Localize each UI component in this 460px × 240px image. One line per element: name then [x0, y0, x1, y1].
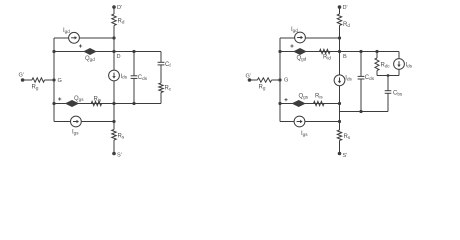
svg-text:Rdc: Rdc	[381, 63, 391, 69]
svg-text:Qgd: Qgd	[297, 56, 307, 62]
junction top wire / drain line (right)	[338, 36, 341, 39]
junction rail / Qgd wire (right)	[278, 50, 281, 53]
wire Qgd branch (right)	[280, 51, 340, 53]
node G' terminal (right circuit)	[246, 74, 252, 82]
wire bottom rail	[54, 103, 161, 105]
capacitor Cds (left circuit)	[131, 75, 148, 81]
svg-text:Ris: Ris	[94, 97, 102, 103]
svg-text:S': S'	[117, 153, 122, 159]
wire Cds top	[133, 52, 135, 76]
svg-text:Rc: Rc	[165, 86, 172, 92]
resistor Rdc (right circuit)	[375, 58, 390, 71]
noise source Qgs (right circuit)	[293, 94, 309, 107]
junction Cds bottom	[132, 102, 135, 105]
current source Ids (right circuit, main line)	[334, 75, 352, 86]
svg-text:Igd: Igd	[291, 27, 298, 33]
wire Rs to S'	[113, 140, 115, 154]
svg-text:Igs: Igs	[72, 130, 79, 136]
wire Cbs to return wire	[387, 93, 389, 111]
wire Rc to bottom rail	[160, 93, 162, 104]
wire stem to Cbs	[387, 76, 389, 91]
svg-text:D: D	[117, 54, 121, 60]
svg-text:Rg: Rg	[259, 85, 266, 91]
wire drain line top-node to node D	[113, 38, 115, 52]
wire Rdc to box bottom	[376, 71, 378, 76]
junction box bottom / stem	[387, 74, 390, 77]
current source Ids (left circuit)	[109, 70, 128, 81]
polarity mark + (Qgd right)	[290, 44, 293, 47]
svg-text:Rd: Rd	[118, 19, 125, 25]
node G (right circuit)	[278, 78, 288, 84]
resistor Rs (right circuit)	[337, 130, 351, 141]
wire output return	[340, 111, 389, 113]
svg-text:Igd: Igd	[63, 28, 70, 34]
node D' terminal (right circuit)	[338, 5, 348, 11]
node D' terminal (left circuit)	[112, 5, 122, 11]
wire Qgd branch	[54, 51, 114, 53]
wire Rs to S' (right)	[339, 141, 341, 154]
svg-text:Cds: Cds	[138, 75, 148, 81]
svg-text:G': G'	[19, 73, 24, 79]
wire bottom rail to Igs wire	[113, 104, 115, 122]
svg-text:Qgs: Qgs	[74, 96, 84, 102]
svg-text:G': G'	[246, 74, 251, 80]
junction Igs wire / main line	[112, 120, 115, 123]
resistor Ris (left circuit)	[91, 97, 102, 106]
resistor Rc (left circuit)	[159, 83, 172, 93]
junction Cds top	[132, 50, 135, 53]
wire Cds bottom (right)	[360, 79, 362, 112]
wire Cds top (right)	[360, 52, 362, 77]
capacitor Cf (left circuit)	[158, 62, 172, 68]
svg-text:B: B	[343, 54, 347, 60]
svg-text:Qgs: Qgs	[299, 94, 309, 100]
junction Igs wire / main line (right)	[338, 120, 341, 123]
svg-text:Igs: Igs	[301, 131, 308, 137]
wire Ids to box bottom	[398, 69, 400, 75]
wire node D to Ids	[113, 52, 115, 71]
svg-text:Cbs: Cbs	[393, 91, 403, 97]
junction left rail / Qgd wire	[52, 50, 55, 53]
svg-text:D': D'	[343, 5, 348, 11]
polarity mark + (Qgd left)	[79, 44, 82, 47]
node D (left circuit)	[112, 50, 120, 60]
resistor Rd (right circuit)	[337, 14, 350, 28]
svg-text:Ids: Ids	[406, 63, 413, 69]
svg-text:Rid: Rid	[323, 55, 331, 61]
wire Rd to top node	[113, 26, 115, 39]
wire bottom rail (right)	[280, 103, 340, 105]
wire to Rs (right)	[339, 122, 341, 131]
noise source Qgs (left circuit)	[66, 96, 84, 106]
svg-text:Rg: Rg	[32, 85, 39, 91]
wire top rail (right)	[280, 37, 340, 39]
resistor Rs (left circuit)	[112, 130, 125, 141]
current source Igs (left circuit)	[71, 116, 82, 135]
node G' terminal (left circuit)	[19, 73, 25, 82]
wire main line through lower junction	[339, 104, 341, 122]
wire node B to Ids (right)	[339, 52, 341, 76]
wire D' to Rd	[113, 7, 115, 14]
capacitor Cbs (right circuit)	[385, 91, 403, 97]
noise source Qgd (right circuit)	[294, 49, 306, 62]
resistor Ris (right circuit)	[314, 94, 325, 106]
wire box bottom	[377, 75, 399, 77]
svg-text:Rs: Rs	[118, 134, 125, 140]
wire top rail	[54, 37, 114, 39]
wire Rg to node G (right)	[272, 79, 280, 81]
node S' terminal (right circuit)	[338, 152, 348, 159]
wire Cds bottom	[133, 78, 135, 103]
svg-text:Ris: Ris	[315, 94, 323, 100]
svg-text:Rs: Rs	[344, 134, 351, 140]
wire node D to output branch	[114, 51, 161, 53]
polarity mark + (Qgs right)	[284, 98, 287, 101]
svg-text:S': S'	[343, 153, 348, 158]
wire to Rs	[113, 122, 115, 130]
svg-text:Cds: Cds	[365, 75, 375, 81]
svg-text:Cf: Cf	[165, 62, 171, 68]
current source Igs (right circuit)	[294, 116, 308, 137]
wire Rd to top node (right)	[339, 26, 341, 39]
wire Ids to bottom rail (right)	[339, 85, 341, 103]
left rail wire (right circuit)	[279, 38, 281, 122]
svg-text:Rd: Rd	[343, 22, 350, 28]
resistor Rd (left circuit)	[112, 14, 125, 26]
wire G' to Rg (right)	[250, 79, 258, 81]
wire Igs loop (right)	[280, 121, 340, 123]
wire D' to Rd (right)	[339, 7, 341, 14]
node B (right circuit)	[338, 50, 347, 60]
wire Cf to Rc	[160, 65, 162, 83]
wire box left vertical	[376, 52, 378, 59]
node S' terminal (left circuit)	[112, 152, 122, 159]
svg-text:G: G	[284, 78, 288, 84]
current source Ids (right circuit, box)	[394, 59, 413, 70]
node G (left circuit)	[52, 78, 61, 84]
resistor Rg (left circuit)	[32, 78, 45, 91]
junction Cds top (right)	[359, 50, 362, 53]
wire Rg to node G	[45, 79, 55, 81]
wire Ids to bottom rail	[113, 81, 115, 104]
current source Igd (right circuit)	[291, 27, 305, 43]
capacitor Cds (right circuit)	[358, 75, 375, 81]
junction bottom rail / main line	[112, 102, 115, 105]
svg-text:Qgd: Qgd	[85, 56, 95, 62]
wire node B to output network	[340, 51, 400, 53]
wire Igs loop	[54, 121, 114, 123]
junction box left top	[375, 50, 378, 53]
current source Igd (left circuit)	[63, 28, 79, 43]
junction Cds / return wire	[359, 110, 362, 113]
svg-text:G: G	[58, 78, 62, 84]
wire top node to node B	[339, 38, 341, 52]
svg-text:Ids: Ids	[121, 74, 128, 80]
wire box right vertical	[398, 52, 400, 59]
junction bottom rail / main line (right)	[338, 102, 341, 105]
svg-text:Ids: Ids	[345, 76, 352, 82]
junction left rail / bottom rail	[52, 102, 55, 105]
svg-text:D': D'	[117, 5, 122, 11]
junction rail / bottom rail (right)	[278, 102, 281, 105]
noise source Qgd (left circuit)	[84, 49, 95, 62]
resistor Rid (right circuit)	[320, 49, 332, 60]
junction top wire / drain line	[112, 36, 115, 39]
wire output branch top	[160, 52, 162, 63]
wire G' to Rg	[23, 79, 32, 81]
left rail wire (left circuit)	[53, 38, 55, 122]
polarity mark + (Qgs left)	[58, 97, 61, 100]
resistor Rg (right circuit)	[257, 78, 271, 91]
